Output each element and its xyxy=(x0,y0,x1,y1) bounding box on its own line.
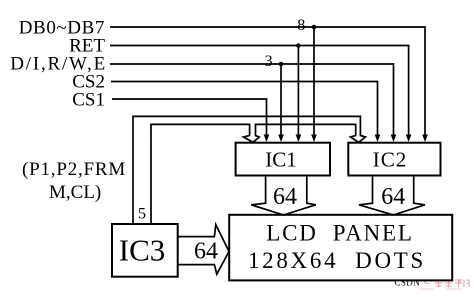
svg-text:5: 5 xyxy=(138,206,146,223)
bus arrow IC1 to LCD (64 lines) xyxy=(251,176,316,215)
svg-text:3: 3 xyxy=(265,53,273,70)
svg-text:8: 8 xyxy=(297,17,305,34)
bus arrow IC2 to LCD (64 lines) xyxy=(359,176,425,215)
node junction dot on D/I,R/W,E xyxy=(279,62,284,67)
wire D/I,R/W,E horizontal xyxy=(110,64,394,135)
wire D/I,R/W,E branch to IC1 xyxy=(280,64,282,135)
wire DB0~DB7 horizontal xyxy=(110,27,425,135)
watermark @handle glyphs xyxy=(420,277,469,289)
svg-text:128X64 DOTS: 128X64 DOTS xyxy=(248,248,426,273)
svg-text:IC2: IC2 xyxy=(373,148,408,172)
wire RET branch to IC1 xyxy=(297,46,299,136)
LCD panel box xyxy=(229,215,452,281)
wire DB0~DB7 branch to IC1 xyxy=(313,27,315,135)
arrowhead into IC1 pin RET xyxy=(296,135,302,143)
svg-text:64: 64 xyxy=(381,184,405,210)
node junction dot on RET xyxy=(296,43,301,48)
arrowhead into IC1 pin CS1 xyxy=(264,135,270,143)
svg-text:M,CL): M,CL) xyxy=(49,182,101,203)
svg-text:IC1: IC1 xyxy=(265,148,297,172)
wire CS1 to IC1 xyxy=(112,99,267,135)
arrowhead into IC2 pin CS2 xyxy=(375,135,381,143)
IC2 box xyxy=(348,143,440,176)
svg-text:64: 64 xyxy=(194,239,218,265)
wire RET horizontal xyxy=(110,46,409,136)
arrowhead into IC2 pin DB xyxy=(422,135,428,143)
arrowhead into IC1 pin DB xyxy=(311,135,317,143)
bus from IC3 to IC1 and IC2 (hollow 5-line control bus) xyxy=(133,116,366,224)
svg-text:(P1,P2,FRM: (P1,P2,FRM xyxy=(22,159,126,180)
svg-text:LCD PANEL: LCD PANEL xyxy=(266,221,414,246)
svg-text:64: 64 xyxy=(273,184,297,210)
bus arrow IC3 to LCD (64 lines) xyxy=(178,225,229,275)
svg-text:CS1: CS1 xyxy=(72,90,105,111)
IC3 box xyxy=(112,224,178,277)
svg-text:IC3: IC3 xyxy=(119,233,166,268)
arrowhead into IC1 pin D/I xyxy=(278,135,284,143)
arrowhead into IC2 pin D/I xyxy=(391,135,397,143)
wire CS2 to IC2 xyxy=(111,82,378,136)
node junction dot on DB0~DB7 xyxy=(312,25,317,30)
IC1 box xyxy=(236,143,330,176)
arrowhead into IC2 pin RET xyxy=(406,135,412,143)
